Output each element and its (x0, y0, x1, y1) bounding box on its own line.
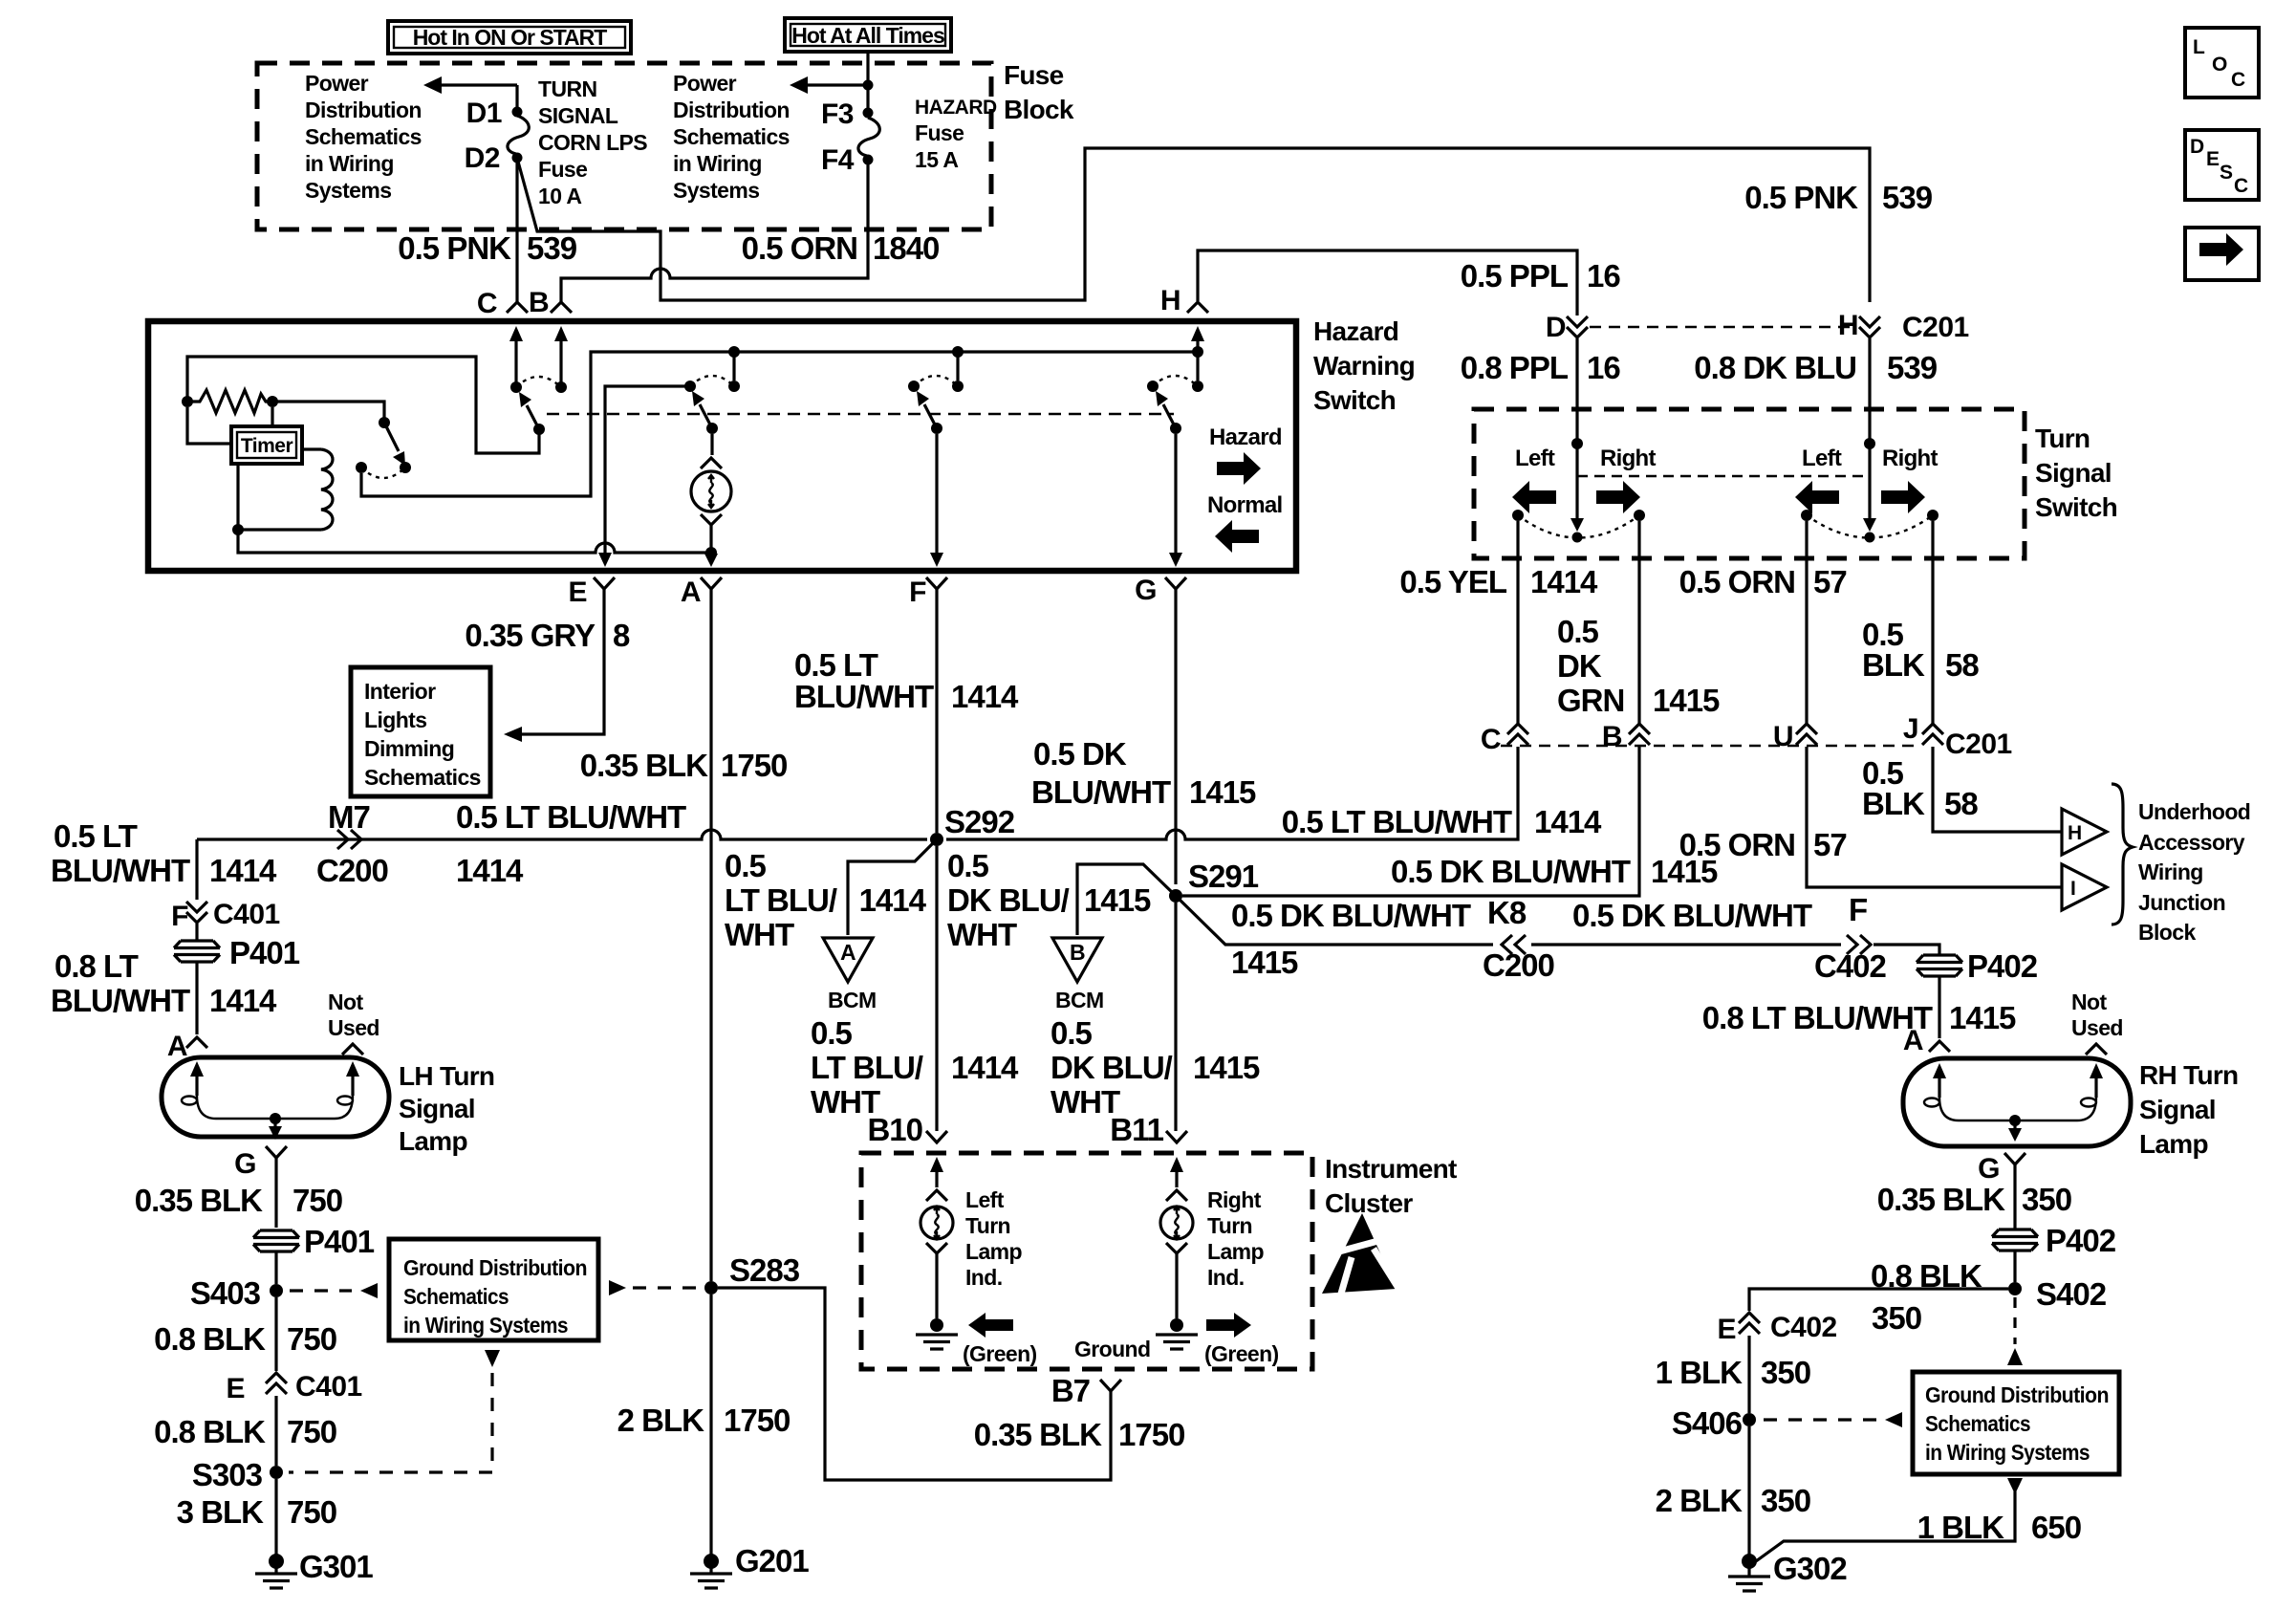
svg-text:57: 57 (1813, 564, 1847, 599)
svg-text:WHT: WHT (725, 917, 794, 952)
svg-text:Cluster: Cluster (1325, 1188, 1413, 1218)
svg-text:B7: B7 (1051, 1373, 1090, 1408)
wire U to junction block H... (0.5 ORN 57) (1807, 747, 2062, 887)
svg-text:2 BLK: 2 BLK (1656, 1483, 1744, 1518)
svg-text:SIGNAL: SIGNAL (538, 103, 618, 128)
wire D2 branch to right (PNK splice route) (518, 148, 1870, 302)
wire resistor right to relay contact (272, 402, 384, 418)
label LH Turn Signal Lamp (399, 1061, 494, 1156)
internal arrow to B terminal (554, 326, 568, 387)
svg-text:Schematics: Schematics (403, 1284, 509, 1309)
svg-text:57: 57 (1813, 827, 1847, 862)
svg-text:Left: Left (965, 1187, 1005, 1212)
pilot lamp lower terminal (701, 514, 722, 525)
svg-text:1414: 1414 (1534, 804, 1602, 839)
svg-text:350: 350 (2022, 1182, 2071, 1217)
wire H to turn signal switch (0.8 DK BLU 539) (1868, 338, 1871, 518)
fuse element TURN SIGNAL CORN LPS (508, 116, 529, 154)
svg-text:LH Turn: LH Turn (399, 1061, 494, 1091)
svg-text:Switch: Switch (1313, 385, 1396, 415)
fuse block dashed boundary (257, 63, 991, 229)
svg-text:Accessory: Accessory (2138, 830, 2245, 855)
svg-text:0.8 LT BLU/WHT: 0.8 LT BLU/WHT (1702, 1000, 1933, 1035)
svg-text:0.5: 0.5 (1557, 614, 1599, 649)
wire pole G wiper to G exit (1174, 434, 1177, 557)
svg-text:750: 750 (287, 1414, 336, 1449)
svg-text:1415: 1415 (1193, 1050, 1260, 1085)
svg-text:1415: 1415 (1084, 882, 1151, 918)
svg-text:Signal: Signal (2035, 458, 2112, 488)
connector G at RH lamp (2004, 1153, 2025, 1164)
svg-text:Hazard: Hazard (1209, 424, 1282, 450)
wire pole A wiper to pilot lamp (710, 434, 713, 455)
flasher relay wiper (384, 423, 405, 466)
connector G at LH lamp (266, 1146, 287, 1158)
svg-text:1750: 1750 (1118, 1417, 1184, 1452)
svg-text:LT BLU/: LT BLU/ (725, 882, 837, 918)
svg-text:1750: 1750 (724, 1403, 790, 1438)
svg-text:C201: C201 (1902, 312, 1969, 343)
svg-text:Lamp: Lamp (1207, 1239, 1264, 1264)
svg-text:0.5 ORN: 0.5 ORN (742, 230, 857, 266)
svg-text:0.8 LT: 0.8 LT (54, 948, 139, 984)
grommet P402 (RH feed) (1917, 955, 1962, 976)
svg-text:S406: S406 (1672, 1405, 1743, 1441)
svg-text:8: 8 (613, 618, 630, 653)
flasher relay contact (top) (379, 417, 390, 428)
svg-text:Not: Not (328, 990, 363, 1014)
svg-text:Schematics: Schematics (673, 124, 790, 149)
svg-text:1414: 1414 (859, 882, 927, 918)
wire left-turn output to connector C (0.5 YEL 1414) (1516, 521, 1519, 724)
left switch travel arc (1518, 515, 1639, 538)
svg-text:L: L (2193, 36, 2205, 58)
svg-text:Right: Right (1882, 446, 1939, 471)
svg-text:C: C (2234, 175, 2248, 197)
connector C at C201 (1507, 724, 1528, 745)
svg-text:Wiring: Wiring (2138, 859, 2203, 884)
svg-text:750: 750 (292, 1183, 342, 1218)
right indicator lower terminal and ground (1156, 1243, 1198, 1349)
svg-text:BLU/WHT: BLU/WHT (794, 679, 934, 714)
fuse terminal F3 (863, 108, 874, 119)
left wiper arrowhead and pivot (1570, 518, 1584, 543)
wire relay contact to lamp bus (361, 352, 1198, 496)
svg-text:G: G (1135, 575, 1157, 606)
junction on PPL feed (1571, 438, 1583, 449)
svg-text:C401: C401 (295, 1371, 362, 1403)
svg-text:BCM: BCM (828, 988, 877, 1012)
connector C at hazard switch (507, 302, 528, 313)
svg-text:350: 350 (1761, 1355, 1810, 1390)
svg-text:539: 539 (1882, 180, 1933, 215)
svg-text:B: B (1602, 721, 1622, 752)
arrow to power distribution (right) (790, 76, 868, 94)
junction timer bottom (232, 524, 244, 535)
svg-text:(Green): (Green) (1204, 1341, 1279, 1366)
svg-text:B10: B10 (867, 1112, 922, 1147)
svg-text:0.35 BLK: 0.35 BLK (580, 748, 708, 783)
right wiper arrowhead and pivot (1863, 518, 1876, 543)
svg-text:Lights: Lights (364, 707, 426, 732)
svg-text:Ind.: Ind. (1207, 1265, 1244, 1290)
svg-text:E: E (568, 577, 587, 608)
connector H at hazard switch (1187, 302, 1208, 313)
interior lights dimming schematics box (351, 667, 490, 796)
connector F below hazard box (926, 577, 947, 589)
svg-text:G: G (234, 1148, 256, 1180)
svg-text:C402: C402 (1770, 1312, 1837, 1343)
label 0.5 DK GRN 1415 (1557, 614, 1720, 718)
svg-text:Hazard: Hazard (1313, 316, 1398, 346)
connector J at C201 (1922, 724, 1943, 745)
reference wire to G302 (1 BLK 650) (2007, 1478, 2023, 1494)
svg-text:in Wiring: in Wiring (673, 151, 762, 176)
wire second-left output to connector U (0.5 ORN 57) (1805, 521, 1808, 724)
svg-text:1415: 1415 (1231, 945, 1298, 980)
svg-text:Ind.: Ind. (965, 1265, 1002, 1290)
BCM input triangle B (1052, 938, 1104, 1012)
svg-text:0.5 LT BLU/WHT: 0.5 LT BLU/WHT (1282, 804, 1512, 839)
right turn indicator input arrow (1166, 1157, 1187, 1201)
svg-text:Ground Distribution: Ground Distribution (1925, 1382, 2109, 1407)
connector E C402 (1739, 1313, 1760, 1334)
arrow legend box (2185, 228, 2259, 280)
svg-text:Warning: Warning (1313, 351, 1415, 381)
svg-text:Right: Right (1600, 446, 1657, 471)
svg-text:A: A (681, 577, 701, 608)
splice S406 (1743, 1413, 1756, 1426)
LH turn signal lamp housing (162, 1057, 389, 1137)
svg-text:Lamp: Lamp (399, 1126, 467, 1156)
svg-text:10 A: 10 A (538, 184, 581, 208)
svg-text:Distribution: Distribution (305, 98, 422, 122)
connector B7 at instrument cluster (1100, 1380, 1121, 1391)
svg-text:F4: F4 (821, 144, 855, 176)
wire S292 branch to BCM input A (848, 839, 937, 935)
connector B11 (1166, 1131, 1187, 1142)
wire main run corner down to C401 F (195, 839, 198, 900)
svg-text:Systems: Systems (673, 178, 759, 203)
pole G wiper (1156, 391, 1181, 434)
svg-text:D: D (2190, 136, 2204, 158)
instrument cluster dashed box (861, 1153, 1312, 1369)
junction block terminal triangle I (2062, 864, 2107, 910)
connector B10 (926, 1131, 947, 1142)
svg-text:B11: B11 (1110, 1112, 1163, 1147)
svg-text:1414: 1414 (951, 1050, 1019, 1085)
wire P401 to S403 (274, 1251, 277, 1284)
internal arrow to H terminal (1191, 326, 1204, 352)
svg-text:Block: Block (2138, 920, 2196, 945)
junction on hazard-fuse feed (863, 80, 874, 91)
dashed connector line C201 (bottom) (1501, 745, 1921, 747)
connector E C401 (266, 1373, 287, 1394)
hazard switch wiper (feed pole) (519, 392, 545, 435)
wire S292 down to B10 (0.5 LT BLU/WHT 1414) (935, 846, 938, 1131)
svg-text:Lamp: Lamp (965, 1239, 1022, 1264)
left turn indicator input arrow (926, 1157, 947, 1201)
timer box (231, 426, 302, 464)
label 0.5 LT BLU/WHT (BCM A branch) (725, 848, 927, 952)
svg-text:0.5: 0.5 (1051, 1015, 1093, 1051)
svg-text:GRN: GRN (1557, 683, 1624, 718)
label 0.5 BLK 58 (below C201) (1862, 755, 1978, 821)
svg-text:1415: 1415 (1653, 683, 1720, 718)
svg-text:Timer: Timer (241, 435, 293, 457)
wire pilot lamp to bus junction (709, 525, 712, 553)
svg-text:Left: Left (1515, 446, 1555, 471)
svg-text:B: B (529, 287, 549, 318)
svg-text:Hot In ON Or START: Hot In ON Or START (413, 25, 608, 50)
svg-text:K8: K8 (1487, 895, 1527, 930)
arrow at A exit (704, 553, 718, 567)
right switch contacts (1801, 510, 1812, 521)
svg-text:D2: D2 (465, 142, 500, 174)
connector A below hazard box (701, 577, 722, 589)
svg-text:Normal: Normal (1207, 492, 1283, 518)
svg-text:S283: S283 (729, 1252, 800, 1288)
svg-text:0.5 PNK: 0.5 PNK (1744, 180, 1858, 215)
wire G to P401 (0.35 BLK 750) (274, 1158, 277, 1228)
note: Power Distribution Schematics in Wiring Systems (right) (673, 71, 790, 203)
wire S403 to C401 E (0.8 BLK 750) (274, 1297, 277, 1371)
wire coil bottom to timer bottom junction (238, 528, 321, 531)
svg-text:G302: G302 (1773, 1551, 1847, 1586)
wire J to junction block (0.5 BLK 58) (1933, 747, 2062, 832)
wire A exit down to S283 (0.35 BLK 1750) (709, 589, 712, 1281)
wire C401 to P401 (195, 924, 198, 941)
svg-text:58: 58 (1944, 786, 1978, 821)
svg-text:I: I (2070, 878, 2075, 900)
wire wiper pole to flasher circuit (187, 357, 539, 453)
wire S283 to G201 (2 BLK 1750) (709, 1295, 712, 1555)
label box "Hot In ON Or START" (388, 21, 631, 54)
svg-text:S403: S403 (190, 1275, 261, 1311)
svg-text:0.5 DK BLU/WHT: 0.5 DK BLU/WHT (1231, 898, 1471, 933)
svg-text:A: A (1903, 1025, 1923, 1056)
svg-text:0.5: 0.5 (725, 848, 767, 883)
wire resistor to timer left (187, 407, 231, 444)
svg-text:E: E (2206, 148, 2220, 170)
connector U at C201 (1796, 724, 1817, 745)
svg-text:1414: 1414 (209, 853, 277, 888)
left switch contacts (1512, 510, 1524, 521)
svg-text:S291: S291 (1188, 859, 1259, 894)
svg-text:O: O (2212, 54, 2227, 76)
wire D to turn signal switch (0.8 PPL 16) (1575, 338, 1578, 518)
svg-text:C200: C200 (1483, 947, 1554, 983)
flasher relay lower contacts (356, 462, 367, 473)
fuse terminal D2 (512, 153, 523, 163)
LOC legend box (2185, 28, 2259, 98)
wire F exit down to S292 (935, 589, 938, 833)
svg-text:S303: S303 (192, 1457, 263, 1492)
ESD sensitive device symbol (1322, 1213, 1399, 1294)
connector A at LH lamp (186, 1037, 207, 1048)
svg-text:B: B (1070, 940, 1085, 965)
splice S402 (2008, 1282, 2022, 1295)
svg-text:0.8 BLK: 0.8 BLK (154, 1321, 266, 1357)
svg-text:DK BLU/: DK BLU/ (947, 882, 1070, 918)
svg-text:Right: Right (1207, 1187, 1262, 1212)
svg-text:E: E (226, 1373, 245, 1404)
BCM input triangle A (823, 938, 877, 1012)
svg-text:350: 350 (1872, 1300, 1921, 1336)
svg-text:Hot At All Times: Hot At All Times (791, 23, 944, 48)
svg-text:RH Turn: RH Turn (2139, 1060, 2238, 1090)
label box "Hot At All Times" (785, 18, 951, 52)
RH turn signal lamp housing (1903, 1058, 2131, 1146)
svg-text:1414: 1414 (209, 983, 277, 1018)
wire second-right output to connector J (0.5 BLK 58) (1931, 521, 1934, 724)
svg-text:G201: G201 (735, 1543, 809, 1578)
svg-text:C401: C401 (213, 899, 280, 930)
svg-text:CORN LPS: CORN LPS (538, 130, 647, 155)
DESC legend box (2185, 130, 2259, 200)
svg-text:S292: S292 (944, 804, 1015, 839)
svg-text:1415: 1415 (1189, 774, 1256, 810)
svg-text:H: H (1160, 285, 1180, 316)
svg-text:0.35 BLK: 0.35 BLK (1877, 1182, 2005, 1217)
svg-text:Power: Power (305, 71, 369, 96)
wire F4 to connector B (0.5 ORN 1840) with hop over PNK wire (561, 164, 868, 302)
ground G201 (690, 1543, 809, 1588)
pole A wiper (692, 391, 718, 434)
svg-text:C200: C200 (316, 853, 388, 888)
svg-text:0.5: 0.5 (947, 848, 989, 883)
svg-text:0.5 LT: 0.5 LT (54, 818, 138, 854)
junction block terminal triangle H (2062, 809, 2107, 855)
label Left Turn Lamp Ind. (965, 1187, 1022, 1290)
svg-text:Turn: Turn (965, 1213, 1010, 1238)
brace for junction block (2112, 784, 2133, 925)
flasher resistor (182, 390, 278, 413)
svg-text:C201: C201 (1945, 729, 2012, 760)
wire pole A contact to E exit (605, 386, 690, 557)
svg-text:350: 350 (1761, 1483, 1810, 1518)
fuse element HAZARD Fuse 15A (858, 118, 879, 156)
svg-text:C: C (2231, 69, 2245, 91)
svg-text:Signal: Signal (399, 1094, 475, 1123)
svg-text:in Wiring: in Wiring (305, 151, 394, 176)
svg-text:DK BLU/: DK BLU/ (1051, 1050, 1173, 1085)
dashed reference box to S283 (609, 1280, 626, 1295)
svg-text:Fuse: Fuse (538, 157, 587, 182)
right switch travel arc (1807, 515, 1933, 538)
svg-text:HAZARD: HAZARD (915, 97, 997, 119)
wiper travel arc C/B (516, 377, 561, 387)
svg-text:Fuse: Fuse (915, 120, 964, 145)
dashed reference S402 to ground distribution (2013, 1297, 2016, 1344)
svg-text:Underhood: Underhood (2138, 799, 2250, 824)
note: Power Distribution Schematics in Wiring Systems (left) (305, 71, 422, 203)
label Right Turn Lamp Ind. (1207, 1187, 1264, 1290)
svg-text:F: F (1849, 892, 1867, 927)
svg-text:E: E (1717, 1314, 1736, 1345)
wire main run 0.5 LT BLU/WHT 1414 (hops over A wire and G wire) (197, 830, 927, 839)
svg-text:Used: Used (328, 1015, 379, 1040)
svg-text:750: 750 (287, 1494, 336, 1530)
svg-text:LT BLU/: LT BLU/ (811, 1050, 923, 1085)
svg-text:0.5 DK BLU/WHT: 0.5 DK BLU/WHT (1391, 854, 1631, 889)
svg-text:Distribution: Distribution (673, 98, 790, 122)
wire pole F wiper to F exit (935, 434, 938, 557)
left turn lamp indicator bulb (921, 1207, 953, 1239)
svg-text:650: 650 (2031, 1510, 2081, 1545)
label RH Turn Signal Lamp (2139, 1060, 2238, 1159)
svg-text:P402: P402 (2046, 1223, 2116, 1258)
mechanical link dashed line (547, 413, 1174, 415)
svg-text:S: S (2220, 162, 2233, 184)
grommet P402 (ground side) (1992, 1229, 2038, 1251)
ground distribution schematics box (left) (389, 1239, 598, 1340)
connector G below hazard box (1165, 577, 1186, 589)
connector F C401 (186, 902, 207, 923)
ground G301 (255, 1549, 373, 1588)
splice S283 (704, 1281, 718, 1295)
right turn lamp indicator bulb (1160, 1207, 1193, 1239)
hazard pilot lamp (691, 471, 731, 511)
svg-text:DK: DK (1557, 648, 1602, 684)
svg-text:F: F (171, 901, 188, 932)
svg-text:16: 16 (1587, 350, 1620, 385)
svg-text:1750: 1750 (721, 748, 787, 783)
hazard switch pole F contacts (908, 381, 920, 392)
svg-text:Turn: Turn (2035, 424, 2090, 453)
svg-text:Lamp: Lamp (2139, 1129, 2208, 1159)
connector Not Used at LH lamp (342, 1044, 363, 1055)
label HAZARD Fuse 15 A (915, 97, 997, 172)
wire S291 to B C201 (0.5 DK BLU/WHT 1415) (1182, 747, 1639, 896)
hazard switch feed contacts C/B (510, 381, 522, 393)
label TURN SIGNAL CORN LPS Fuse 10 A (538, 76, 647, 208)
arrow at E exit (598, 553, 612, 567)
svg-text:750: 750 (287, 1321, 336, 1357)
svg-text:Schematics: Schematics (364, 765, 481, 790)
svg-text:BLU/WHT: BLU/WHT (1031, 774, 1171, 810)
svg-text:Switch: Switch (2035, 492, 2117, 522)
svg-text:WHT: WHT (947, 917, 1017, 952)
connector Not Used at RH lamp (2086, 1044, 2107, 1055)
svg-text:3 BLK: 3 BLK (177, 1494, 265, 1530)
wire H to connector D (0.5 PPL 16) (1198, 250, 1577, 315)
svg-text:C: C (1481, 724, 1501, 755)
arrow to power distribution (left) (423, 76, 517, 107)
wire S406 to G302 (2 BLK 350) (1747, 1426, 1750, 1555)
junction on DK BLU feed (1864, 438, 1875, 449)
svg-text:0.5 LT BLU/WHT: 0.5 LT BLU/WHT (456, 799, 686, 835)
svg-text:0.8 BLK: 0.8 BLK (154, 1414, 266, 1449)
timer coil (302, 449, 333, 530)
inline connector M7 C200 (337, 830, 361, 849)
grommet P401 (174, 941, 220, 962)
internal arrow to C terminal (509, 326, 523, 387)
turn signal lever mechanical dashed link (1577, 475, 1870, 477)
svg-text:D: D (1546, 312, 1566, 343)
svg-text:Power: Power (673, 71, 737, 96)
svg-text:0.8 DK BLU: 0.8 DK BLU (1694, 350, 1856, 385)
wire D2 to connector C (0.5 PNK 539) (515, 163, 518, 302)
svg-text:Dimming: Dimming (364, 736, 454, 761)
LH lamp bulb posts (182, 1061, 359, 1105)
svg-text:M7: M7 (328, 799, 370, 835)
junction pilot bus / A exit (705, 547, 717, 558)
wire resistor right to timer top (271, 407, 273, 426)
wire G exit down to S291 (0.5 DK BLU/WHT 1415) (1174, 589, 1177, 884)
splice S292 (930, 833, 943, 846)
svg-text:D1: D1 (466, 98, 502, 129)
